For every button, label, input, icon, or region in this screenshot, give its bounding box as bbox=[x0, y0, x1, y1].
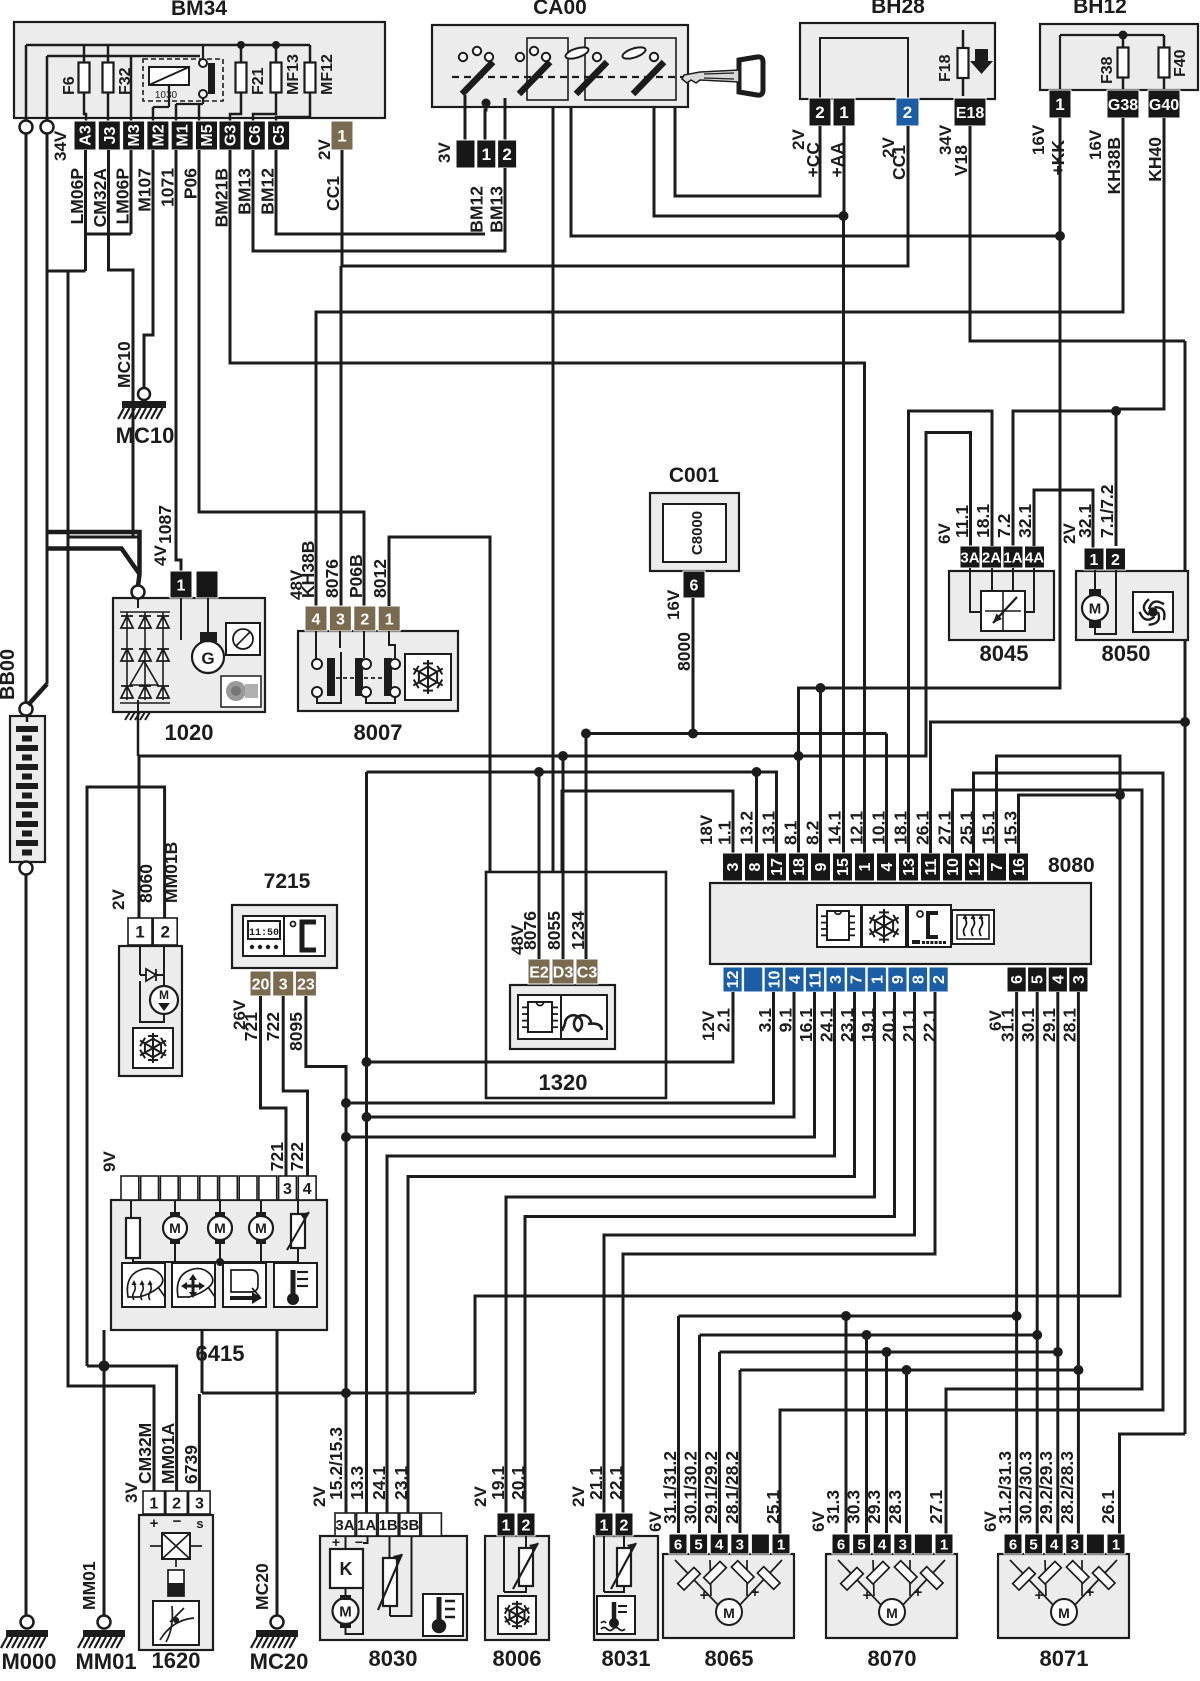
svg-text:3.1: 3.1 bbox=[755, 1008, 775, 1033]
wire 23.1 to 8030 3B bbox=[408, 992, 855, 1513]
svg-text:17: 17 bbox=[769, 858, 786, 876]
wire KH40 to 8045/8050 bbox=[1116, 118, 1164, 546]
svg-text:−: − bbox=[173, 1513, 182, 1530]
svg-text:1: 1 bbox=[857, 862, 874, 871]
svg-text:CC1: CC1 bbox=[889, 145, 909, 180]
svg-text:16: 16 bbox=[1011, 858, 1028, 876]
svg-text:10.1: 10.1 bbox=[869, 811, 889, 845]
8030 motor bbox=[333, 1598, 359, 1624]
svg-text:10: 10 bbox=[945, 858, 962, 876]
svg-text:M: M bbox=[886, 1605, 898, 1621]
svg-text:G38: G38 bbox=[1108, 97, 1138, 114]
8030 rheostat bbox=[383, 1558, 397, 1606]
8045 internal stubs bbox=[970, 568, 981, 612]
svg-text:2: 2 bbox=[815, 103, 824, 122]
wire 8060 pin1 drop bbox=[138, 756, 141, 918]
junction E2 bbox=[534, 767, 544, 777]
svg-text:5: 5 bbox=[857, 1536, 865, 1553]
svg-text:1: 1 bbox=[149, 1495, 158, 1512]
wire CA00 accessory to +KK rail bbox=[571, 107, 1060, 236]
wire 14.1 from +AA to 8080 pin15 bbox=[842, 216, 845, 853]
svg-text:34V: 34V bbox=[51, 130, 70, 161]
wire 1020 bottom stub bbox=[137, 712, 140, 756]
svg-text:7.1/7.2: 7.1/7.2 bbox=[1097, 484, 1117, 538]
svg-text:G: G bbox=[201, 649, 214, 668]
svg-text:18.1: 18.1 bbox=[973, 504, 993, 538]
svg-text:F38: F38 bbox=[1099, 56, 1116, 84]
svg-text:1087: 1087 bbox=[155, 505, 175, 544]
svg-text:15: 15 bbox=[835, 858, 852, 876]
junction C3 bbox=[581, 729, 591, 739]
wire 31.1 bus bbox=[1015, 992, 1018, 1534]
wire x366 rail down to 8030 1A bbox=[365, 772, 368, 1513]
actuator 8065 bbox=[663, 1554, 794, 1638]
wire V18 to right rail bbox=[970, 126, 1185, 341]
svg-text:16V: 16V bbox=[1086, 129, 1105, 160]
relay 1030 bbox=[143, 59, 223, 101]
wire 15.1 pin7 route to h1296 bbox=[475, 756, 1120, 1393]
alternator 1020 bbox=[113, 598, 265, 712]
8030 thermometer box bbox=[423, 1594, 463, 1636]
pin 1 brown CC1 bbox=[331, 121, 353, 150]
svg-text:C6: C6 bbox=[247, 125, 264, 146]
svg-text:4: 4 bbox=[1050, 1536, 1059, 1553]
svg-text:3: 3 bbox=[195, 1495, 204, 1512]
svg-text:MF13: MF13 bbox=[285, 54, 302, 95]
svg-text:M: M bbox=[1089, 600, 1102, 617]
svg-text:CA00: CA00 bbox=[533, 0, 587, 19]
6415 icon temperature bbox=[274, 1263, 317, 1307]
svg-text:4: 4 bbox=[787, 975, 804, 984]
svg-text:22.1: 22.1 bbox=[920, 1008, 940, 1042]
svg-text:29.3: 29.3 bbox=[864, 1490, 884, 1524]
8080 bottom right pins bbox=[1007, 967, 1026, 992]
svg-text:4: 4 bbox=[312, 611, 321, 628]
wire 26.1 pin11 to right rail bbox=[931, 722, 1186, 853]
6415 pin row bbox=[121, 1176, 139, 1200]
svg-text:23: 23 bbox=[297, 976, 315, 993]
svg-text:3A: 3A bbox=[335, 1517, 354, 1534]
svg-text:16V: 16V bbox=[664, 589, 683, 620]
wire battery diagonal bbox=[28, 684, 47, 705]
svg-text:1: 1 bbox=[839, 103, 848, 122]
svg-text:19.1: 19.1 bbox=[488, 1466, 508, 1500]
svg-text:A3: A3 bbox=[78, 125, 95, 146]
svg-text:D3: D3 bbox=[553, 964, 574, 981]
svg-text:2A: 2A bbox=[982, 549, 1001, 566]
wire 721 to 6415 pin3 bbox=[261, 996, 287, 1176]
svg-text:29.1/29.2: 29.1/29.2 bbox=[701, 1451, 721, 1524]
battery terminal bottom bbox=[20, 862, 33, 875]
wire 24.1 to 8030 1B bbox=[387, 992, 835, 1513]
1620 gauge box bbox=[153, 1601, 199, 1645]
CA00 inner frames bbox=[527, 38, 568, 100]
8050 motor bbox=[1089, 589, 1101, 596]
svg-text:8031: 8031 bbox=[602, 1646, 651, 1671]
svg-text:28.1/28.2: 28.1/28.2 bbox=[722, 1451, 742, 1524]
svg-text:4V: 4V bbox=[151, 545, 170, 566]
CA00 pin row bbox=[456, 140, 475, 168]
CA00 pin stubs bbox=[464, 95, 467, 140]
svg-text:G40: G40 bbox=[1149, 97, 1179, 114]
wire 8000/1234 bus to 8080 pin4 bbox=[692, 598, 695, 734]
svg-text:MC10: MC10 bbox=[114, 341, 134, 388]
wire 27.1 pin10 route to 8070 pin1 bbox=[946, 790, 1142, 1534]
svg-text:C5: C5 bbox=[271, 125, 288, 146]
6415 motor 1 bbox=[163, 1216, 187, 1240]
svg-text:6: 6 bbox=[1009, 1536, 1017, 1553]
6415 common bus bbox=[133, 1262, 298, 1264]
svg-text:1320: 1320 bbox=[539, 1070, 588, 1095]
wire 6415 to h1393 bbox=[201, 1330, 204, 1393]
svg-text:6: 6 bbox=[1009, 975, 1026, 984]
actuator 8070 bbox=[826, 1554, 957, 1638]
svg-text:26.1: 26.1 bbox=[1098, 1490, 1118, 1524]
svg-text:28.2/28.3: 28.2/28.3 bbox=[1057, 1451, 1077, 1524]
svg-text:8.2: 8.2 bbox=[803, 820, 823, 845]
ground MC20 bbox=[271, 1616, 284, 1629]
svg-text:V18: V18 bbox=[951, 145, 971, 176]
wire P06 to 8007 pin2 bbox=[199, 150, 364, 606]
svg-text:2: 2 bbox=[160, 923, 169, 942]
svg-text:30.3: 30.3 bbox=[844, 1490, 864, 1524]
junction C001 bbox=[688, 729, 698, 739]
BH12 pin row bbox=[1049, 90, 1071, 118]
svg-text:8095: 8095 bbox=[286, 1012, 306, 1051]
6415 icon recirculation bbox=[223, 1263, 266, 1307]
svg-text:C001: C001 bbox=[669, 464, 720, 487]
wire BM21B to 8080 pin1 bbox=[230, 150, 865, 853]
junction x366/h1062 bbox=[362, 1057, 372, 1067]
8031 coolant temp box bbox=[597, 1596, 635, 1634]
svg-text:E2: E2 bbox=[529, 964, 549, 981]
svg-text:2: 2 bbox=[931, 975, 948, 984]
svg-text:F18: F18 bbox=[937, 54, 954, 82]
7215 pins 20 3 23 brown bbox=[250, 971, 271, 996]
svg-text:KH38B: KH38B bbox=[1104, 137, 1124, 194]
svg-text:2: 2 bbox=[360, 611, 369, 628]
wire 18.1 8045-2A to 8080 pin13 col bbox=[909, 411, 993, 790]
wire 32.1 to 8050 bbox=[1034, 490, 1093, 548]
svg-text:3: 3 bbox=[279, 976, 288, 993]
CA00 dashed line bbox=[452, 76, 740, 78]
svg-text:4: 4 bbox=[1050, 975, 1067, 984]
ECU 8080 bbox=[710, 883, 1091, 964]
wire M107 to MC10 bbox=[144, 150, 153, 388]
wire circle1 to battery bbox=[25, 133, 28, 703]
8031 rheostat bbox=[617, 1548, 631, 1586]
svg-text:3: 3 bbox=[336, 611, 345, 628]
wire 3A drop bbox=[345, 1393, 347, 1513]
wire h1393 to 8030 3A bbox=[202, 1392, 475, 1395]
svg-text:8012: 8012 bbox=[370, 559, 390, 598]
junction 13.2 bbox=[752, 767, 762, 777]
BM34 fuse-to-pin links bbox=[230, 110, 241, 121]
wire BM12 to CA00 bbox=[276, 150, 485, 234]
CA00 switch contacts bbox=[462, 62, 493, 94]
svg-text:F21: F21 bbox=[250, 67, 267, 95]
6415 icon distribution bbox=[172, 1263, 215, 1307]
ground junction MM01 bbox=[99, 1361, 110, 1372]
wire C3 1234 up bbox=[585, 734, 588, 960]
svg-text:7: 7 bbox=[989, 862, 1006, 871]
svg-text:8007: 8007 bbox=[354, 720, 403, 745]
wire 19.1 to 8006 pin1 bbox=[506, 992, 875, 1513]
svg-text:MF12: MF12 bbox=[319, 54, 336, 95]
svg-text:21.1: 21.1 bbox=[586, 1466, 606, 1500]
svg-text:MC20: MC20 bbox=[250, 1649, 309, 1674]
pump snowflake box bbox=[133, 1028, 173, 1068]
svg-text:11:50: 11:50 bbox=[249, 928, 279, 939]
pump unit with pins 1 2 (8060/MM01B) bbox=[119, 946, 182, 1076]
C001 pin 6 bbox=[683, 571, 705, 598]
svg-text:MC20: MC20 bbox=[252, 1563, 272, 1610]
svg-text:1A: 1A bbox=[1003, 549, 1022, 566]
junction dot F38 bbox=[1119, 31, 1128, 40]
svg-text:1620: 1620 bbox=[152, 1648, 201, 1673]
svg-text:8030: 8030 bbox=[369, 1646, 418, 1671]
svg-text:3: 3 bbox=[828, 975, 845, 984]
svg-text:3B: 3B bbox=[400, 1517, 419, 1534]
8030 K box bbox=[330, 1549, 363, 1588]
8080 icon temperature bbox=[908, 905, 951, 947]
svg-text:CC1: CC1 bbox=[323, 176, 343, 211]
svg-text:MM01: MM01 bbox=[75, 1649, 136, 1674]
BH28 pin row bbox=[809, 98, 831, 126]
8045 pins 3A 2A 1A 4A bbox=[960, 546, 980, 568]
svg-text:6: 6 bbox=[690, 577, 699, 594]
svg-text:8045: 8045 bbox=[980, 641, 1029, 666]
8030 pins bbox=[335, 1513, 355, 1536]
battery sensor 1620 bbox=[139, 1515, 213, 1650]
fan unit 8050 bbox=[1076, 571, 1188, 640]
wire CA00 to +AA bbox=[654, 107, 844, 216]
wire h756 bus bbox=[139, 433, 971, 757]
wire CA00 to +CC bbox=[675, 107, 820, 196]
pump internals bbox=[139, 945, 141, 975]
wire CC1 BM34 to BH28 bbox=[342, 126, 908, 266]
wire 20.1 to 8006 pin2 bbox=[525, 992, 895, 1513]
svg-text:13.2: 13.2 bbox=[737, 811, 757, 845]
wire 3.1 bbox=[346, 992, 774, 1103]
svg-text:28.3: 28.3 bbox=[885, 1490, 905, 1524]
wire battery to M000 bbox=[25, 874, 28, 1617]
8080 icon heater bbox=[952, 910, 994, 944]
svg-text:1: 1 bbox=[482, 145, 491, 164]
fuse MF13 bbox=[275, 45, 278, 110]
svg-text:+: + bbox=[150, 1515, 159, 1532]
wire 8095 to rail bbox=[306, 996, 346, 1513]
wire ground rail x68 bbox=[68, 271, 154, 1491]
svg-text:4: 4 bbox=[879, 862, 896, 871]
svg-text:3: 3 bbox=[283, 1181, 292, 1198]
wire h772 bus 13.2/13.1 bbox=[367, 772, 777, 853]
svg-text:1: 1 bbox=[600, 1517, 609, 1534]
thick wire battery to alternator junction bbox=[47, 549, 140, 575]
svg-text:31.1/31.2: 31.1/31.2 bbox=[660, 1451, 680, 1524]
svg-text:M3: M3 bbox=[126, 124, 143, 146]
1620 battery icon bbox=[168, 1570, 184, 1596]
wire 28.1 bus bbox=[1077, 992, 1080, 1534]
svg-text:8: 8 bbox=[911, 975, 928, 984]
svg-text:3V: 3V bbox=[435, 142, 454, 163]
wire circle2 down bbox=[46, 133, 49, 684]
BM34 internal bus bbox=[26, 44, 310, 47]
svg-text:1: 1 bbox=[502, 1517, 511, 1534]
junction 7.2 bbox=[1111, 406, 1121, 416]
svg-text:M: M bbox=[159, 988, 169, 1002]
svg-text:M: M bbox=[169, 1220, 181, 1236]
junction pin18/h756 bbox=[794, 751, 804, 761]
control panel 6415 bbox=[111, 1200, 327, 1330]
6415 icon defrost bbox=[122, 1263, 165, 1307]
svg-text:31.1: 31.1 bbox=[998, 1008, 1018, 1042]
8007 snowflake box bbox=[405, 654, 451, 700]
svg-text:2: 2 bbox=[522, 1517, 531, 1534]
svg-text:1.1: 1.1 bbox=[715, 820, 735, 845]
svg-text:MM01: MM01 bbox=[79, 1561, 99, 1610]
svg-text:3: 3 bbox=[1071, 975, 1088, 984]
fuse MF12 bbox=[309, 45, 312, 110]
svg-text:2.1: 2.1 bbox=[714, 1008, 734, 1033]
svg-text:8060: 8060 bbox=[136, 864, 156, 903]
svg-text:8070: 8070 bbox=[868, 1646, 917, 1671]
fuse F40 bbox=[1163, 35, 1166, 90]
svg-text:1: 1 bbox=[1055, 95, 1064, 114]
svg-text:3: 3 bbox=[736, 1536, 744, 1553]
svg-text:7: 7 bbox=[849, 975, 866, 984]
svg-text:1A: 1A bbox=[357, 1517, 376, 1534]
wire 21.1 to 8031 pin1 bbox=[604, 992, 915, 1513]
svg-text:3: 3 bbox=[725, 862, 742, 871]
svg-text:8065: 8065 bbox=[705, 1646, 754, 1671]
svg-text:J3: J3 bbox=[102, 127, 119, 145]
svg-text:1: 1 bbox=[940, 1536, 948, 1553]
svg-text:KH40: KH40 bbox=[1145, 137, 1165, 182]
svg-text:3: 3 bbox=[899, 1536, 907, 1553]
svg-text:18V: 18V bbox=[697, 814, 716, 845]
BH28 internal frame bbox=[820, 38, 908, 98]
svg-text:6415: 6415 bbox=[196, 1341, 245, 1366]
svg-text:+KK: +KK bbox=[1048, 140, 1068, 176]
svg-text:8076: 8076 bbox=[520, 911, 540, 950]
6415 resistor bbox=[126, 1218, 140, 1258]
wire 30.1 bus bbox=[1036, 992, 1039, 1534]
6415 motor 2 bbox=[208, 1216, 232, 1240]
svg-text:6: 6 bbox=[674, 1536, 682, 1553]
svg-text:M: M bbox=[214, 1220, 226, 1236]
wire CM32A bbox=[109, 150, 134, 537]
svg-text:28.1: 28.1 bbox=[1059, 1008, 1079, 1042]
svg-text:+: + bbox=[751, 1584, 760, 1601]
1620 crossed box bbox=[162, 1533, 190, 1559]
actuator 8045 bbox=[949, 571, 1054, 640]
svg-text:M000: M000 bbox=[1, 1649, 56, 1674]
heater unit 8030 bbox=[320, 1536, 467, 1640]
8007 contacts bbox=[315, 631, 317, 659]
1020 photo bbox=[221, 676, 261, 707]
fuse F38 bbox=[1122, 35, 1125, 90]
svg-text:s: s bbox=[196, 1516, 203, 1531]
wire pin8 13.2 bbox=[755, 772, 758, 853]
svg-text:M2: M2 bbox=[150, 124, 167, 146]
wire 15.3 pin16 join bbox=[1019, 795, 1121, 853]
svg-text:5: 5 bbox=[1030, 975, 1047, 984]
1320 pins E2 D3 C3 brown bbox=[528, 959, 550, 984]
svg-text:M: M bbox=[1058, 1605, 1070, 1621]
svg-text:30.1/30.2: 30.1/30.2 bbox=[681, 1451, 701, 1524]
wire 22.1 to 8031 pin2 bbox=[623, 992, 935, 1513]
junction circle alternator B+ bbox=[132, 586, 145, 599]
svg-text:M5: M5 bbox=[199, 124, 216, 146]
svg-text:10: 10 bbox=[766, 971, 783, 989]
svg-text:32.1: 32.1 bbox=[1015, 504, 1035, 538]
6415 rheostat bbox=[291, 1214, 305, 1248]
svg-text:4: 4 bbox=[303, 1181, 312, 1198]
pressure switch 8007 bbox=[298, 631, 458, 711]
fuse F6 bbox=[83, 45, 86, 110]
8050 pins 1 2 bbox=[1084, 548, 1104, 570]
junction D3 bbox=[558, 751, 568, 761]
svg-text:721: 721 bbox=[241, 1012, 261, 1041]
wire 8076 CC1-column to 8007 pin3 bbox=[340, 266, 343, 606]
svg-text:9.1: 9.1 bbox=[775, 1008, 795, 1033]
fuse F32 bbox=[107, 45, 110, 110]
wire MC20 from 6415 bbox=[276, 1330, 279, 1617]
svg-text:2V: 2V bbox=[315, 139, 334, 160]
svg-text:31.3: 31.3 bbox=[823, 1490, 843, 1524]
svg-text:24.1: 24.1 bbox=[369, 1466, 389, 1500]
1020 internals bbox=[137, 598, 139, 608]
svg-text:1020: 1020 bbox=[165, 720, 214, 745]
svg-text:1: 1 bbox=[337, 127, 346, 146]
svg-text:8055: 8055 bbox=[544, 911, 564, 950]
svg-text:27.1: 27.1 bbox=[926, 1490, 946, 1524]
wire BM13 to CA00 bbox=[253, 150, 505, 251]
svg-text:29.1: 29.1 bbox=[1039, 1008, 1059, 1042]
svg-text:BH12: BH12 bbox=[1073, 0, 1127, 18]
svg-text:3: 3 bbox=[1071, 1536, 1079, 1553]
wire 1071 to alternator bbox=[176, 150, 181, 571]
1620 pins 1 2 3 bbox=[143, 1491, 165, 1514]
svg-text:C3: C3 bbox=[577, 964, 598, 981]
fuse F21 bbox=[240, 45, 243, 110]
8080 blue pin row bbox=[723, 967, 742, 992]
ground MM01 symbol bbox=[98, 1616, 111, 1629]
svg-text:9V: 9V bbox=[100, 1151, 119, 1172]
svg-text:2: 2 bbox=[620, 1517, 629, 1534]
svg-text:29.2/29.3: 29.2/29.3 bbox=[1036, 1451, 1056, 1524]
wire 6415 bottom left to MM01 junction bbox=[103, 1330, 106, 1366]
svg-text:BH28: BH28 bbox=[871, 0, 925, 18]
wire jog y271 bbox=[47, 270, 86, 273]
svg-text:+: + bbox=[914, 1584, 923, 1601]
svg-text:11: 11 bbox=[808, 971, 825, 988]
svg-text:M: M bbox=[723, 1605, 735, 1621]
junction 26.1 rail bbox=[1180, 717, 1190, 727]
wire 6739 bbox=[198, 1394, 201, 1491]
svg-text:722: 722 bbox=[287, 1142, 307, 1171]
sensor 8031 bbox=[594, 1536, 658, 1640]
BM34 pin row A3 J3 M3 M2 M1 M5 G3 C6 C5 bbox=[74, 121, 96, 150]
svg-text:2: 2 bbox=[1111, 552, 1120, 569]
svg-text:1B: 1B bbox=[379, 1517, 398, 1534]
svg-text:12: 12 bbox=[725, 971, 742, 989]
svg-text:+: + bbox=[332, 1534, 340, 1550]
pump pins 1 2 bbox=[128, 918, 152, 945]
svg-text:+: + bbox=[863, 1587, 872, 1604]
wire h537 bbox=[68, 536, 140, 539]
